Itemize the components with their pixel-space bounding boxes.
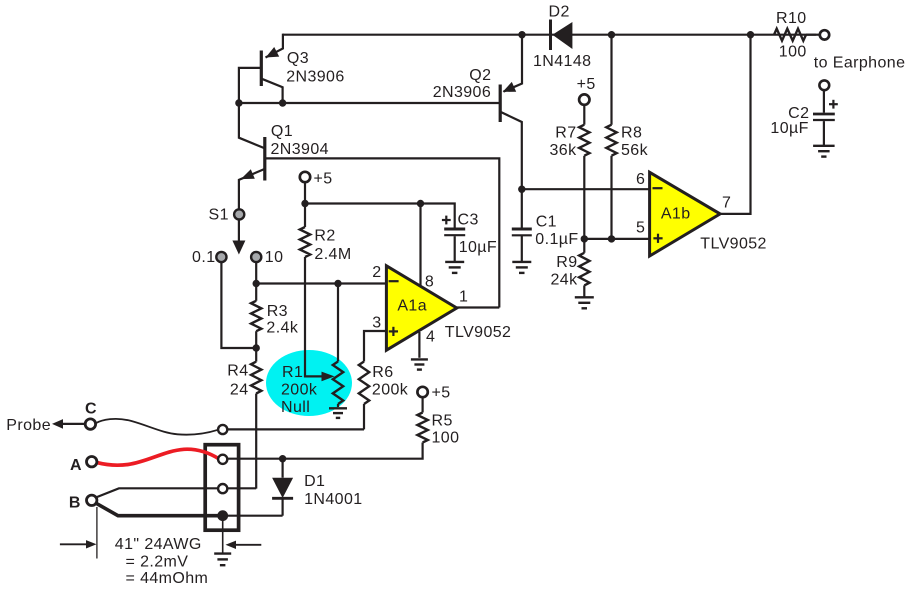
svg-text:10: 10 — [265, 249, 284, 266]
svg-text:R2: R2 — [314, 228, 335, 245]
svg-text:+5: +5 — [577, 76, 596, 93]
svg-text:0.1µF: 0.1µF — [535, 231, 578, 248]
svg-text:R7: R7 — [555, 125, 576, 142]
svg-text:R8: R8 — [621, 125, 642, 142]
svg-text:10µF: 10µF — [459, 239, 497, 256]
svg-text:Q2: Q2 — [469, 67, 491, 84]
svg-text:2N3904: 2N3904 — [271, 141, 329, 158]
svg-text:2.4k: 2.4k — [266, 320, 298, 337]
svg-text:200k: 200k — [372, 381, 409, 398]
svg-text:41" 24AWG: 41" 24AWG — [115, 536, 202, 553]
svg-text:Null: Null — [281, 399, 310, 416]
svg-text:Q3: Q3 — [287, 50, 309, 67]
svg-text:5: 5 — [636, 220, 645, 237]
svg-text:100: 100 — [779, 44, 807, 61]
svg-text:R1: R1 — [282, 364, 303, 381]
svg-text:56k: 56k — [621, 142, 649, 159]
svg-text:6: 6 — [636, 171, 645, 188]
svg-text:Q1: Q1 — [271, 123, 293, 140]
svg-text:8: 8 — [425, 274, 434, 291]
svg-text:1N4148: 1N4148 — [533, 53, 591, 70]
svg-text:24: 24 — [230, 381, 249, 398]
svg-text:0.1: 0.1 — [192, 249, 215, 266]
svg-text:R5: R5 — [432, 413, 453, 430]
svg-text:D2: D2 — [549, 4, 570, 21]
svg-text:S1: S1 — [209, 207, 229, 224]
svg-text:36k: 36k — [550, 142, 578, 159]
svg-text:A1a: A1a — [397, 298, 427, 315]
svg-text:R10: R10 — [776, 10, 807, 27]
svg-text:C3: C3 — [458, 212, 479, 229]
svg-text:100: 100 — [432, 430, 460, 447]
svg-text:R6: R6 — [372, 364, 393, 381]
svg-text:3: 3 — [372, 314, 381, 331]
svg-text:C1: C1 — [536, 214, 557, 231]
svg-text:2.4M: 2.4M — [314, 246, 351, 263]
svg-text:D1: D1 — [304, 473, 325, 490]
svg-text:200k: 200k — [281, 381, 318, 398]
svg-text:1N4001: 1N4001 — [304, 491, 362, 508]
svg-text:R4: R4 — [227, 363, 248, 380]
svg-text:2: 2 — [372, 264, 381, 281]
svg-text:+5: +5 — [432, 385, 451, 402]
svg-text:= 2.2mV: = 2.2mV — [126, 554, 189, 571]
svg-text:+5: +5 — [314, 171, 333, 188]
svg-text:A: A — [70, 457, 82, 474]
svg-text:B: B — [69, 495, 81, 512]
svg-text:TLV9052: TLV9052 — [700, 236, 767, 253]
svg-text:Probe: Probe — [6, 417, 51, 434]
svg-text:TLV9052: TLV9052 — [445, 324, 512, 341]
svg-text:C: C — [85, 401, 97, 418]
svg-text:A1b: A1b — [661, 205, 691, 222]
svg-text:= 44mOhm: = 44mOhm — [126, 570, 209, 587]
svg-text:2N3906: 2N3906 — [286, 68, 344, 85]
svg-text:10µF: 10µF — [770, 120, 808, 137]
svg-text:R9: R9 — [556, 254, 577, 271]
svg-text:7: 7 — [722, 195, 731, 212]
svg-text:to Earphone: to Earphone — [814, 54, 906, 71]
svg-text:2N3906: 2N3906 — [433, 84, 491, 101]
svg-text:1: 1 — [459, 289, 468, 306]
svg-text:4: 4 — [426, 328, 435, 345]
svg-text:24k: 24k — [551, 272, 579, 289]
svg-text:R3: R3 — [267, 303, 288, 320]
